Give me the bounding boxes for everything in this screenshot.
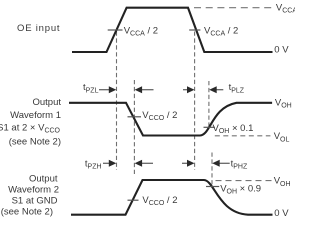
svg-text:VCCA: VCCA — [276, 3, 295, 15]
svg-text:VOH × 0.9: VOH × 0.9 — [220, 184, 261, 196]
svg-text:(see Note 2): (see Note 2) — [1, 207, 53, 218]
svg-text:(see Note 2): (see Note 2) — [9, 136, 61, 147]
svg-text:tPZL: tPZL — [83, 82, 99, 94]
svg-text:0 V: 0 V — [274, 45, 289, 56]
svg-text:VCCO / 2: VCCO / 2 — [142, 110, 177, 122]
svg-text:VOH × 0.1: VOH × 0.1 — [213, 123, 254, 135]
svg-text:tPZH: tPZH — [85, 158, 102, 170]
svg-text:Output: Output — [29, 174, 58, 185]
svg-text:Waveform 1: Waveform 1 — [10, 110, 61, 121]
svg-text:tPHZ: tPHZ — [231, 158, 248, 170]
svg-text:VOH: VOH — [275, 97, 292, 109]
svg-text:S1 at GND: S1 at GND — [12, 196, 58, 207]
svg-text:VCCA / 2: VCCA / 2 — [204, 26, 238, 38]
svg-text:0 V: 0 V — [274, 208, 289, 219]
svg-text:Output: Output — [32, 97, 61, 108]
svg-text:OE input: OE input — [17, 23, 60, 34]
svg-text:VOL: VOL — [274, 131, 290, 143]
svg-text:VOH: VOH — [274, 176, 291, 188]
svg-text:Waveform 2: Waveform 2 — [8, 185, 59, 196]
svg-text:tPLZ: tPLZ — [229, 82, 245, 94]
svg-text:VCCO / 2: VCCO / 2 — [142, 195, 177, 207]
svg-text:S1 at 2 × VCCO: S1 at 2 × VCCO — [0, 123, 61, 135]
svg-text:VCCA / 2: VCCA / 2 — [124, 26, 158, 38]
